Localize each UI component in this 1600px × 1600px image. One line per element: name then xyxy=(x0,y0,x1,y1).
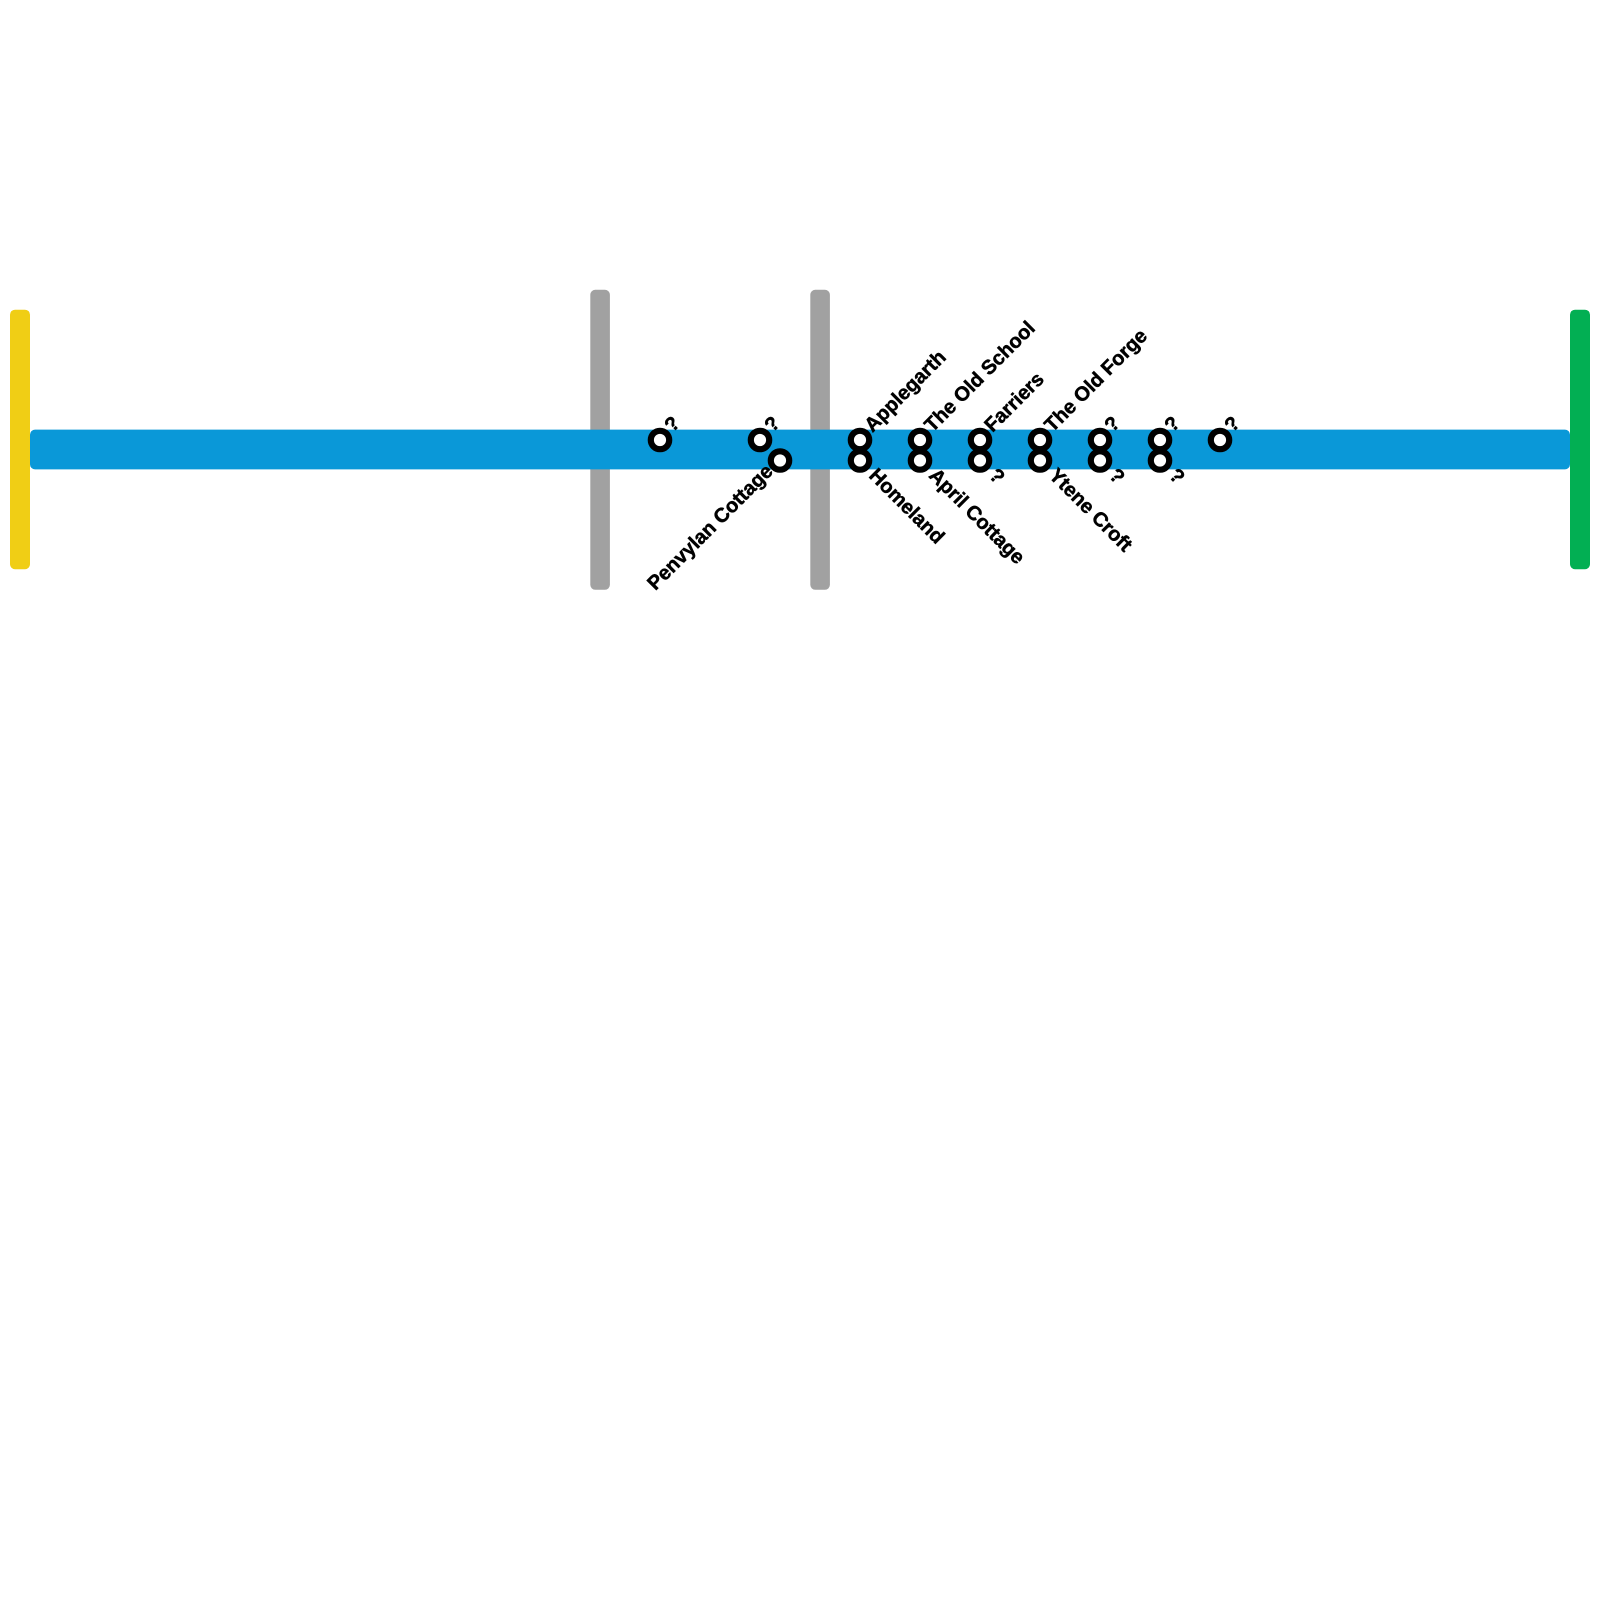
node top x=1220 (?) xyxy=(1211,431,1229,449)
node top x=860 (Applegarth) xyxy=(851,431,869,449)
street end bar (green) xyxy=(1570,310,1590,570)
node top x=1160 (?) xyxy=(1151,431,1169,449)
node bottom x=980 (?) xyxy=(971,451,989,469)
node top x=1100 (?) xyxy=(1091,431,1109,449)
top row labels, rotated -45 deg xyxy=(660,317,1244,436)
node top x=1040 (The Old Forge) xyxy=(1031,431,1049,449)
node bottom x=920 (April Cottage) xyxy=(911,451,929,469)
node top x=760 (?) xyxy=(751,431,769,449)
node bottom x=1100 (?) xyxy=(1091,451,1109,469)
side road bar (gray) left, at x=600 xyxy=(590,290,610,590)
node bottom x=860 (Homeland) xyxy=(851,451,869,469)
node bottom x=780 (Penvylan Cottage) xyxy=(771,451,789,469)
node bottom x=1160 (?) xyxy=(1151,451,1169,469)
bottom row labels xyxy=(643,460,1188,594)
node bottom x=1040 (Ytene Croft) xyxy=(1031,451,1049,469)
street start bar (yellow) xyxy=(10,310,30,570)
node top x=660 (?) xyxy=(651,431,669,449)
node top x=920 (The Old School) xyxy=(911,431,929,449)
house nodes (white circles with black ring) xyxy=(651,431,1229,470)
side road bar (gray) right, at x=820 xyxy=(810,290,830,590)
node top x=980 (Farriers) xyxy=(971,431,989,449)
main street line (blue) xyxy=(30,430,1570,470)
